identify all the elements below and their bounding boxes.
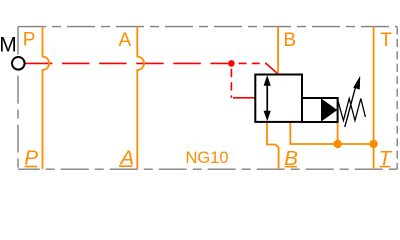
svg-text:T: T [380,30,392,51]
valve pilot stage box [302,98,338,122]
pilot line M gauge to node [25,62,229,64]
pilot line node to B junction [239,62,267,64]
valve U1 main body [255,75,302,122]
port label A bottom underline [119,165,132,167]
svg-text:B: B [283,30,296,51]
pilot line diagonal into valve top [266,63,278,74]
port label T bottom underline [380,166,391,168]
valve flow path double arrow [264,75,271,121]
subplate outline frame [18,27,397,170]
wire T line [373,27,375,170]
wire valve outlet to T [290,121,373,144]
svg-text:NG10: NG10 [186,149,229,167]
wire P line [43,27,50,170]
junction dot drain/T run [333,140,341,148]
spring [338,99,366,121]
wire valve outlet to B bottom port [267,121,279,169]
adjustment arrow [345,84,357,128]
node junction red dot [228,60,235,67]
svg-text:A: A [119,30,132,51]
svg-text:M: M [0,33,17,56]
wire pilot drain [337,121,339,144]
gauge port M circle [12,57,25,70]
port label P bottom underline [25,166,37,168]
wire B line top [277,27,279,75]
svg-text:P: P [23,30,36,51]
wire A line [137,27,144,170]
junction dot T line [369,140,377,148]
port label B bottom underline [285,166,297,168]
pilot cone triangle [321,98,337,121]
pilot line node down to valve left [230,69,232,98]
